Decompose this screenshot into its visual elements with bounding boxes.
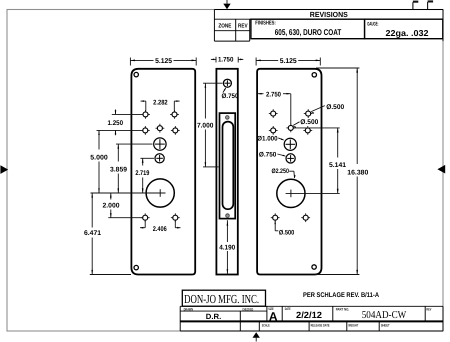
- per schlage note: [303, 292, 379, 299]
- slot opening: [223, 122, 234, 210]
- left plate hole bottom left: [141, 213, 150, 222]
- left plate cylinder hole 2.250: [91, 179, 175, 207]
- svg-text:D.R.: D.R.: [206, 312, 222, 321]
- date value: [296, 310, 322, 320]
- left plate outline: [131, 69, 195, 275]
- left centering mark arrow: [0, 165, 8, 174]
- rev label: [426, 307, 432, 311]
- drawn value: [206, 312, 222, 321]
- revisions table frame: [214, 10, 443, 42]
- middle plate slot frame: [220, 113, 236, 219]
- dimension 5.141: [294, 128, 347, 193]
- svg-text:3.859: 3.859: [110, 167, 127, 174]
- svg-text:SHEET: SHEET: [381, 323, 391, 327]
- svg-text:DATE: DATE: [285, 307, 291, 311]
- svg-text:605, 630, DURO COAT: 605, 630, DURO COAT: [275, 27, 342, 37]
- svg-text:4.190: 4.190: [219, 244, 235, 251]
- right plate outline: [257, 69, 321, 275]
- finishes box: [251, 19, 365, 39]
- svg-text:PART NO.: PART NO.: [336, 307, 350, 311]
- gauge box: [365, 19, 443, 39]
- svg-text:2/2/12: 2/2/12: [296, 310, 322, 320]
- zone column label: [218, 22, 231, 29]
- label diameter .500 center: [293, 119, 319, 128]
- right plate top mounting hole: [312, 73, 316, 77]
- registration mark 1: [413, 1, 418, 10]
- svg-text:Ø.750: Ø.750: [259, 151, 277, 158]
- svg-text:Ø.500: Ø.500: [300, 119, 318, 126]
- svg-text:REVISIONS: REVISIONS: [310, 10, 348, 19]
- release date label: [311, 323, 331, 327]
- svg-text:DON-JO MFG. INC.: DON-JO MFG. INC.: [184, 292, 259, 306]
- sheet label: [381, 323, 391, 327]
- label diameter .500 upper: [311, 104, 345, 114]
- left plate hole row1 left: [141, 110, 150, 119]
- label diameter .750 middle plate: [222, 87, 239, 100]
- svg-text:WEIGHT: WEIGHT: [348, 323, 359, 327]
- date label: [285, 307, 291, 311]
- dimension 5.125 right plate: [256, 58, 320, 66]
- svg-text:FINISHES:: FINISHES:: [255, 21, 276, 27]
- svg-text:16.380: 16.380: [347, 170, 368, 177]
- top centering mark arrow: [223, 0, 230, 9]
- middle plate outline: [216, 69, 237, 275]
- svg-text:Ø.500: Ø.500: [279, 229, 295, 236]
- slot bottom screw: [226, 214, 230, 218]
- svg-text:A: A: [269, 310, 278, 324]
- svg-text:ZONE: ZONE: [218, 22, 231, 29]
- right plate hole .750: [286, 154, 295, 163]
- slot top screw: [226, 116, 230, 120]
- bottom centering mark arrow: [253, 332, 260, 341]
- dimension 5.000: [90, 130, 108, 193]
- svg-text:2.719: 2.719: [135, 170, 149, 177]
- size label: [268, 307, 274, 311]
- middle plate top hole: [223, 79, 231, 87]
- left plate hole bottom right: [171, 213, 180, 222]
- svg-text:1.750: 1.750: [218, 57, 234, 64]
- svg-text:504AD-CW: 504AD-CW: [362, 310, 407, 321]
- svg-text:PER SCHLAGE REV. B/11-A: PER SCHLAGE REV. B/11-A: [303, 292, 379, 299]
- checked label: [242, 307, 253, 311]
- svg-text:CHECKED: CHECKED: [242, 307, 253, 311]
- svg-text:5.141: 5.141: [329, 162, 346, 169]
- right plate hole row1 left: [269, 109, 278, 118]
- size value: [269, 310, 278, 324]
- svg-text:2.282: 2.282: [153, 99, 168, 106]
- label diameter 1.000: [257, 136, 284, 143]
- svg-text:GAUGE:: GAUGE:: [367, 22, 378, 28]
- svg-text:5.000: 5.000: [90, 155, 108, 162]
- svg-text:Ø2.250: Ø2.250: [271, 168, 289, 175]
- left plate bottom mounting hole: [134, 265, 138, 269]
- svg-text:DRAWN: DRAWN: [184, 307, 194, 311]
- dimension 2.719: [135, 158, 154, 193]
- svg-text:SCALE: SCALE: [262, 323, 271, 327]
- rev column label: [238, 23, 248, 29]
- label diameter .500 bottom: [274, 221, 294, 237]
- svg-text:RELEASE DATE: RELEASE DATE: [311, 323, 331, 327]
- dimension 5.125 left plate: [130, 58, 196, 66]
- right plate hole bottom left: [271, 213, 280, 222]
- dimension 2.000: [103, 193, 143, 218]
- label diameter 2.250: [271, 168, 295, 179]
- svg-text:Ø.500: Ø.500: [326, 104, 344, 111]
- part no label: [336, 307, 350, 311]
- svg-text:2.750: 2.750: [266, 91, 281, 98]
- right plate hole row2 right: [303, 126, 312, 135]
- dimension 1.750 middle plate: [211, 57, 243, 64]
- left plate hole 1.000: [154, 138, 166, 150]
- right plate hole bottom right: [301, 213, 310, 222]
- right plate hole 1.000: [284, 138, 296, 150]
- left plate hole row1 right: [170, 110, 179, 119]
- company name box: [182, 290, 265, 306]
- left plate top mounting hole: [134, 72, 138, 76]
- dimension 2.750: [258, 91, 291, 124]
- svg-text:REV: REV: [426, 307, 432, 311]
- svg-text:2.000: 2.000: [103, 202, 120, 209]
- svg-text:REV: REV: [238, 23, 248, 29]
- label diameter .750 right plate: [259, 151, 286, 158]
- right plate bottom mounting hole: [312, 265, 316, 269]
- dimension 3.859: [110, 144, 153, 193]
- weight label: [348, 323, 359, 327]
- svg-text:1.250: 1.250: [108, 120, 124, 127]
- dimension 16.380: [315, 68, 369, 275]
- registration mark 2: [428, 0, 434, 9]
- left plate hole row2 right: [171, 126, 180, 135]
- dimension 2.406 bottom hole spacing: [140, 221, 181, 233]
- right centering mark arrow: [437, 165, 445, 174]
- dimension 2.282 hole spacing: [141, 99, 180, 111]
- right plate hole center small: [286, 124, 295, 133]
- svg-text:5.125: 5.125: [280, 58, 297, 65]
- svg-text:5.125: 5.125: [155, 58, 172, 65]
- dimension 7.000 middle plate: [197, 83, 223, 167]
- title block frame: [180, 306, 443, 331]
- svg-text:6.471: 6.471: [84, 230, 101, 237]
- revisions header text: [310, 10, 348, 19]
- svg-text:Ø1.000: Ø1.000: [257, 136, 278, 143]
- dimension 4.190 middle plate: [219, 220, 235, 274]
- scale label: [262, 323, 271, 327]
- svg-text:Ø.750: Ø.750: [222, 93, 239, 100]
- part no value: [362, 310, 407, 321]
- left plate hole row2 left: [141, 126, 150, 135]
- right plate hole row1 right: [304, 109, 313, 118]
- dimension 1.250 row spacing: [97, 110, 142, 136]
- dimension 6.471: [84, 193, 131, 275]
- right plate cylinder hole 2.250: [277, 179, 340, 207]
- right plate hole row2 left: [269, 126, 278, 135]
- svg-text:22ga. .032: 22ga. .032: [386, 28, 429, 38]
- svg-text:2.406: 2.406: [153, 226, 167, 233]
- drawn label: [184, 307, 194, 311]
- left plate hole .750: [155, 154, 164, 163]
- svg-text:7.000: 7.000: [197, 122, 214, 129]
- left plate hole center small: [156, 124, 165, 133]
